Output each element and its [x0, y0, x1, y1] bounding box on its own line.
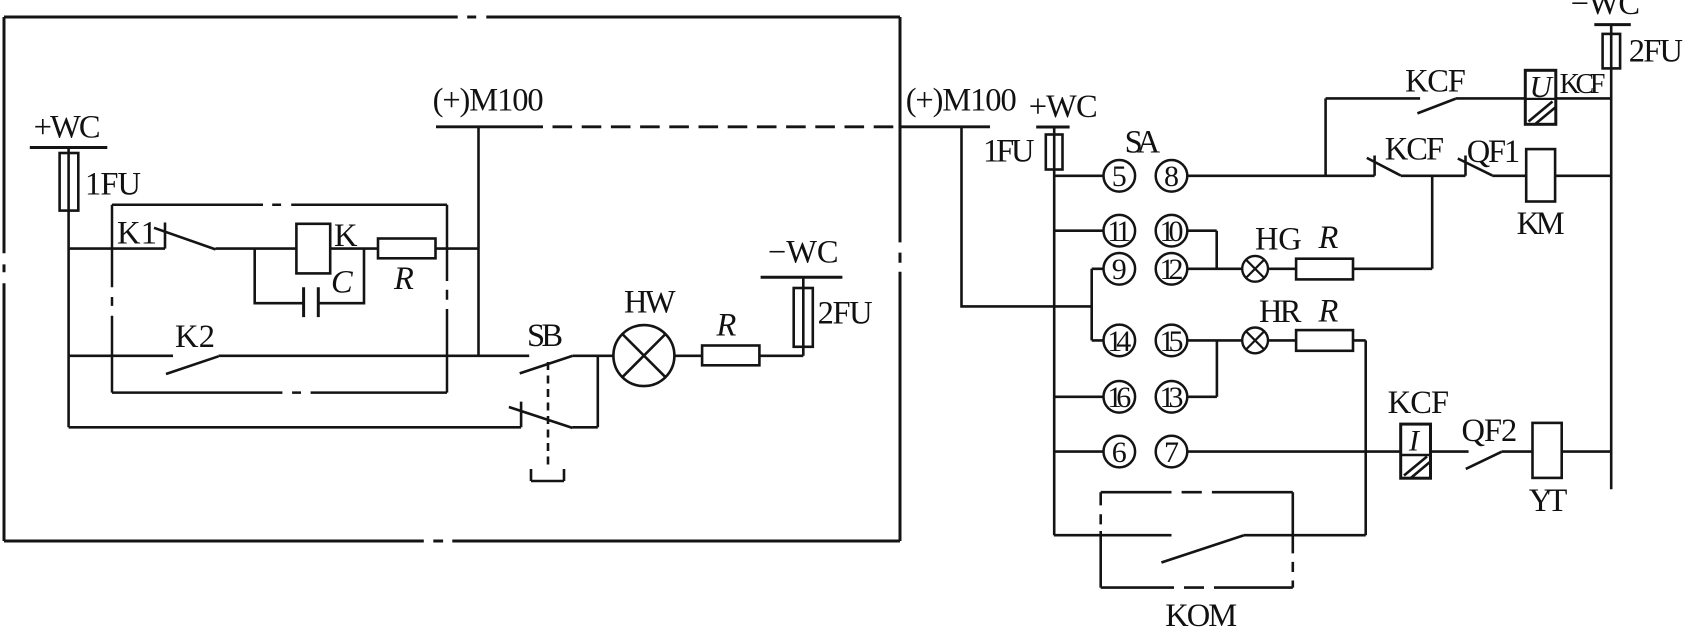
svg-text:K2: K2: [175, 319, 215, 355]
svg-text:KOM: KOM: [1165, 598, 1237, 629]
svg-text:1FU: 1FU: [983, 134, 1035, 170]
svg-text:K1: K1: [117, 216, 157, 252]
svg-text:9: 9: [1112, 253, 1127, 286]
svg-text:16: 16: [1107, 381, 1131, 414]
svg-text:15: 15: [1160, 325, 1184, 358]
svg-text:12: 12: [1160, 253, 1184, 286]
svg-text:R: R: [393, 261, 414, 297]
svg-text:KM: KM: [1517, 206, 1565, 242]
svg-text:5: 5: [1112, 160, 1127, 193]
svg-text:KCF: KCF: [1388, 385, 1450, 421]
svg-text:8: 8: [1164, 160, 1179, 193]
svg-text:R: R: [1318, 220, 1339, 256]
svg-text:−WC: −WC: [1571, 0, 1640, 22]
svg-text:R: R: [716, 308, 737, 344]
svg-text:SA: SA: [1125, 125, 1161, 161]
svg-text:C: C: [331, 265, 353, 301]
svg-text:(+)M100: (+)M100: [906, 83, 1017, 119]
svg-text:+WC: +WC: [1029, 89, 1098, 125]
svg-text:HW: HW: [624, 285, 676, 321]
svg-text:7: 7: [1164, 436, 1179, 469]
svg-text:+WC: +WC: [34, 109, 101, 145]
svg-text:QF2: QF2: [1462, 413, 1518, 449]
svg-text:13: 13: [1160, 381, 1184, 414]
svg-text:R: R: [1318, 294, 1339, 330]
svg-text:HG: HG: [1255, 221, 1302, 257]
svg-text:YT: YT: [1529, 483, 1568, 519]
svg-text:KCF: KCF: [1560, 69, 1606, 100]
svg-text:2FU: 2FU: [818, 295, 873, 331]
svg-text:KCF: KCF: [1385, 131, 1444, 167]
svg-text:KCF: KCF: [1405, 63, 1466, 99]
svg-text:K: K: [334, 218, 358, 254]
svg-text:HR: HR: [1259, 294, 1302, 330]
svg-text:14: 14: [1107, 325, 1131, 358]
svg-text:QF1: QF1: [1467, 134, 1520, 170]
svg-text:10: 10: [1160, 215, 1184, 248]
svg-text:6: 6: [1112, 436, 1127, 469]
svg-text:11: 11: [1107, 215, 1131, 248]
svg-text:1FU: 1FU: [85, 167, 141, 203]
svg-text:SB: SB: [527, 318, 563, 354]
svg-text:−WC: −WC: [768, 235, 839, 271]
svg-text:U: U: [1530, 69, 1555, 104]
svg-text:2FU: 2FU: [1629, 33, 1683, 69]
svg-text:(+)M100: (+)M100: [433, 83, 544, 119]
